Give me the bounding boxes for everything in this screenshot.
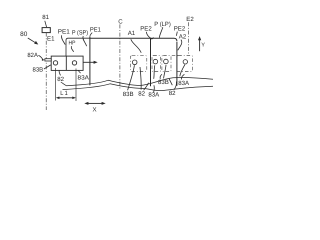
leader 82 (C mover) — [140, 67, 141, 90]
svg-text:83A: 83A — [78, 74, 90, 81]
svg-text:PE1: PE1 — [90, 27, 102, 34]
phantom mover pair right half — [162, 55, 171, 71]
leader A2 — [178, 40, 182, 51]
svg-text:81: 81 — [42, 14, 49, 21]
break wave lower — [63, 84, 214, 91]
leader P (LP) — [159, 27, 163, 38]
leader 83A row1 — [181, 74, 184, 79]
svg-text:P (LP): P (LP) — [154, 21, 171, 28]
leader PE1 right — [90, 33, 92, 36]
svg-text:PE2: PE2 — [174, 25, 186, 32]
svg-text:82: 82 — [169, 90, 176, 97]
svg-text:PE1: PE1 — [58, 29, 71, 36]
dimension L1 extension lines — [55, 68, 57, 101]
hole 83B left circle — [53, 61, 57, 65]
leader PE2 left — [146, 32, 150, 38]
leader PE1 left — [61, 35, 65, 44]
rail top edge — [90, 38, 177, 41]
hole circle pair right — [164, 59, 169, 64]
svg-text:83B: 83B — [33, 66, 44, 73]
arrow 80 — [28, 38, 37, 43]
leader P (SP) — [83, 36, 87, 46]
dimension L1 arrows — [58, 97, 75, 99]
centerline C (dash-dot) — [119, 24, 121, 88]
hole circle (A2 mover) — [183, 60, 187, 64]
hole 83A right circle — [72, 61, 76, 65]
leader 83A row2 — [153, 85, 156, 92]
hole circle pair left — [153, 59, 158, 64]
box 81 (actuator) — [42, 28, 50, 33]
phantom mover at C — [130, 56, 146, 72]
phantom top edge continuation — [172, 54, 177, 56]
centerline E2 (dash-dot) — [187, 22, 189, 55]
phantom mover at A2 — [177, 55, 193, 71]
hole circle (C mover) — [132, 60, 137, 65]
rail right end edge — [176, 42, 178, 86]
plate divider — [65, 56, 67, 70]
phantom mover pair left half — [152, 55, 161, 71]
centerline E1 (dash-dot) — [45, 33, 47, 110]
leader hook 83B row1 — [160, 74, 162, 79]
svg-text:82: 82 — [57, 76, 64, 83]
leader 82 (left plate) — [59, 71, 60, 76]
svg-text:83A: 83A — [178, 80, 190, 87]
leader from pair left hole — [154, 65, 155, 79]
HP phantom bracket — [66, 38, 90, 56]
pin box 82A — [45, 59, 51, 61]
leader 83A (left plate) — [78, 71, 80, 74]
axis arrow Y — [199, 39, 201, 52]
svg-text:E2: E2 — [186, 16, 194, 23]
svg-text:L 1: L 1 — [60, 90, 68, 97]
svg-text:A2: A2 — [179, 33, 187, 40]
mover plate 82 (left, solid) — [51, 56, 83, 70]
svg-text:Y: Y — [201, 43, 205, 49]
leader 83B far left — [44, 65, 51, 69]
leader from pair right hole — [164, 65, 166, 78]
svg-text:80: 80 — [20, 31, 28, 38]
svg-text:83A: 83A — [148, 91, 160, 98]
axis arrow X — [87, 102, 103, 104]
leader for 81 — [45, 21, 47, 27]
motion arrow X at HP — [83, 61, 95, 63]
leader 83B (C mover) — [128, 65, 135, 90]
svg-text:PE2: PE2 — [140, 25, 152, 32]
svg-text:X: X — [93, 106, 97, 113]
leader 82 row2 left — [144, 83, 149, 90]
leader after 83B row1 — [169, 79, 172, 86]
svg-text:HP: HP — [69, 41, 76, 47]
break wave upper — [61, 77, 213, 85]
rail left end edge — [89, 36, 91, 85]
leader 82A with arrow — [38, 55, 42, 59]
svg-text:A1: A1 — [128, 30, 136, 37]
svg-text:P (SP): P (SP) — [72, 29, 88, 36]
leader A1 — [131, 39, 141, 53]
rail module divider — [150, 38, 152, 86]
leader PE2 right — [175, 32, 178, 36]
svg-text:82A: 82A — [27, 52, 38, 59]
svg-text:82: 82 — [138, 90, 145, 97]
leader 82 row2 right — [174, 82, 177, 90]
svg-text:C: C — [118, 19, 123, 26]
leader HP — [71, 46, 73, 52]
svg-text:E1: E1 — [47, 35, 55, 42]
hook at divider top — [151, 37, 154, 38]
svg-text:83B: 83B — [123, 91, 134, 98]
leader from A2 mover hole — [180, 65, 185, 77]
